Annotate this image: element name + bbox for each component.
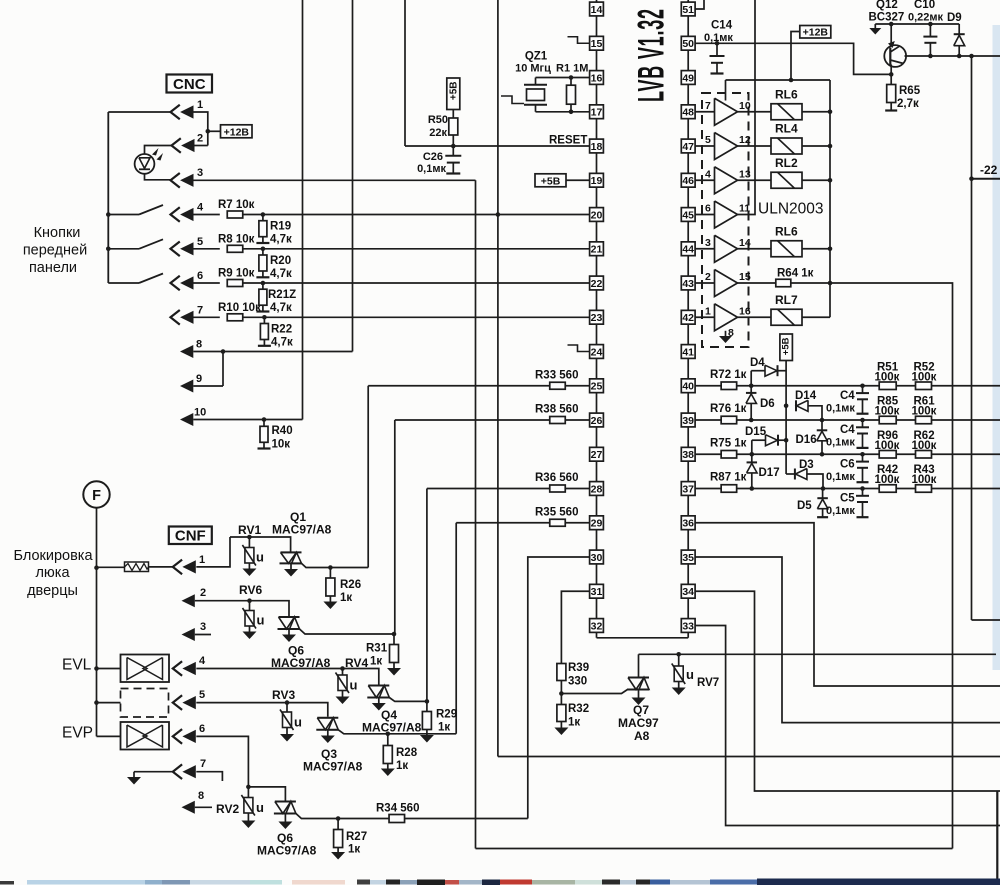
wire: pin36 to right edge	[695, 523, 1000, 686]
wire: Q1 gate	[302, 563, 369, 567]
svg-text:1к: 1к	[370, 656, 382, 668]
svg-text:42: 42	[682, 312, 694, 324]
svg-text:+5В: +5В	[541, 175, 561, 187]
node: bus / switch pin5	[106, 247, 111, 252]
svg-text:1к: 1к	[340, 592, 352, 604]
ground R28	[381, 769, 395, 777]
svg-text:7: 7	[705, 100, 711, 112]
svg-text:22: 22	[591, 278, 603, 290]
svg-text:CNC: CNC	[173, 76, 206, 93]
resistor R22 4.7k with ground bar	[263, 317, 265, 324]
wire: CNF3 stub	[195, 634, 211, 636]
svg-text:R7 10к: R7 10к	[218, 199, 255, 211]
wire: CNF6 down to bottom triac	[196, 736, 285, 800]
node: R22 top	[262, 315, 267, 320]
svg-text:R76 1к: R76 1к	[710, 403, 747, 415]
ground RV2	[241, 821, 255, 829]
capacitor C6	[860, 452, 865, 457]
bottom color strip (scan artifact)	[0, 881, 14, 885]
diode D17	[751, 454, 753, 462]
svg-text:BC327: BC327	[869, 12, 905, 24]
diode D6	[750, 386, 752, 393]
power +5B box at pin 19	[535, 174, 566, 187]
pin 15 hook stub	[568, 37, 590, 44]
svg-text:100к: 100к	[875, 474, 900, 486]
resistor R38 560	[395, 419, 550, 421]
svg-text:R72 1к: R72 1к	[710, 369, 747, 381]
switch S3 front panel button	[108, 282, 139, 284]
wire: CNF8 stub	[195, 806, 212, 808]
resistor R1 1M	[569, 75, 574, 80]
svg-text:R29: R29	[436, 709, 457, 721]
capacitor C26 0.1uF	[452, 146, 454, 156]
svg-text:5: 5	[199, 689, 205, 701]
switch S1 front panel button	[108, 214, 139, 216]
svg-text:34: 34	[682, 586, 694, 598]
svg-text:19: 19	[591, 175, 603, 187]
svg-text:0,1мк: 0,1мк	[826, 471, 855, 483]
svg-text:C5: C5	[840, 493, 855, 505]
svg-text:C4: C4	[840, 390, 855, 402]
svg-text:25: 25	[591, 381, 603, 393]
wire: -220V to right edge bottom	[972, 619, 1000, 621]
svg-text:R34 560: R34 560	[376, 803, 419, 815]
node: row39 D6 bottom	[749, 418, 754, 423]
svg-text:2: 2	[197, 133, 203, 145]
node: RL2 to bus	[828, 178, 833, 183]
svg-text:люка: люка	[35, 565, 70, 581]
solenoid valve EVP	[97, 735, 121, 737]
svg-text:1к: 1к	[568, 717, 580, 729]
connector CNF pin 5	[173, 695, 182, 710]
svg-text:RL6: RL6	[775, 224, 798, 238]
svg-text:RV6: RV6	[239, 583, 262, 597]
resistor R52 100k	[916, 382, 932, 390]
ground R29	[420, 735, 434, 743]
wire: pin3/R64 bottom link	[476, 848, 953, 850]
varistor RV3	[286, 703, 288, 712]
triac Q6 MAC97/A8 (mid)	[279, 616, 300, 618]
crystal QZ1 10MHz	[536, 77, 590, 79]
svg-text:18: 18	[591, 141, 603, 153]
svg-text:40: 40	[682, 381, 694, 393]
svg-text:100к: 100к	[875, 371, 900, 383]
svg-text:D6: D6	[760, 398, 775, 410]
svg-text:C10: C10	[914, 0, 935, 11]
diode D3	[786, 473, 795, 475]
IC left column pin boxes 14-32	[590, 2, 604, 16]
node: D14 anode on +5B stem	[784, 404, 789, 409]
wire: row pin39	[737, 419, 1000, 421]
svg-text:u: u	[294, 715, 302, 730]
svg-text:24: 24	[591, 346, 603, 358]
wire: bottom right border	[996, 791, 998, 884]
svg-text:MAC97/A8: MAC97/A8	[362, 721, 422, 735]
relay RL6	[738, 111, 772, 113]
wire: pin26 line down to Q6 gate	[394, 420, 396, 634]
node: R50/C26/RESET junction	[451, 144, 456, 149]
svg-text:RV7: RV7	[697, 677, 719, 689]
resistor R42 100k	[879, 485, 896, 493]
IC U1 right spine	[687, 0, 689, 638]
resistor R43 100k	[916, 485, 932, 493]
svg-text:u: u	[350, 678, 358, 693]
diode D4	[750, 371, 752, 386]
ground RV7	[672, 688, 686, 696]
resistor R36 560	[427, 488, 550, 490]
varistor RV6	[249, 601, 251, 611]
resistor R39 330	[557, 664, 566, 681]
svg-text:MAC97: MAC97	[618, 716, 659, 730]
ground Q6b MT1	[284, 814, 286, 822]
ground RV1	[242, 569, 256, 577]
wire: LED to pin3	[145, 174, 171, 180]
switch S2 front panel button	[108, 248, 139, 250]
svg-text:R36 560: R36 560	[535, 472, 578, 484]
svg-text:1к: 1к	[438, 722, 450, 734]
node: row37 D17 bottom	[750, 486, 755, 491]
svg-text:12: 12	[739, 134, 751, 146]
transistor Q12 BC327	[884, 45, 906, 67]
resistor R7 10k	[194, 214, 220, 216]
wire: Q3 gate to pin29 line	[338, 730, 456, 734]
resistor R75 1k	[695, 453, 721, 455]
wire: CNF2 row to Q6	[195, 601, 289, 616]
svg-text:28: 28	[591, 483, 603, 495]
svg-text:u: u	[256, 550, 264, 565]
buffer U2 channel in2 out15	[715, 270, 738, 297]
resistor R51 100k	[879, 382, 896, 390]
svg-text:22к: 22к	[429, 127, 447, 139]
wire: row pin40	[737, 385, 1000, 387]
svg-text:D17: D17	[759, 467, 780, 479]
wire: pin3 long row then down to bottom-right fan	[194, 179, 476, 181]
diode D14	[795, 400, 797, 411]
svg-text:14: 14	[739, 237, 751, 249]
svg-text:10к: 10к	[272, 439, 291, 451]
LED D (front panel)	[135, 154, 155, 174]
svg-text:16: 16	[591, 72, 603, 84]
svg-text:0,1мк: 0,1мк	[704, 32, 733, 44]
pin 24 hook stub	[568, 345, 590, 352]
node: R21Z top	[261, 281, 266, 286]
resistor R50 22k	[452, 110, 454, 118]
ground Q6 MT1	[288, 629, 290, 635]
connector CNF pin 7	[173, 764, 182, 779]
resistor R62 100k	[916, 451, 932, 459]
svg-text:дверцы: дверцы	[27, 583, 78, 599]
wire: pin28 line down to Q4 gate	[426, 489, 428, 702]
ground RV6	[243, 632, 257, 640]
svg-text:1: 1	[705, 305, 711, 317]
connector CNC pin 3	[171, 173, 180, 188]
wire: CNF5 row to Q3	[196, 703, 327, 717]
svg-text:51: 51	[682, 4, 694, 16]
svg-text:+12В: +12В	[803, 27, 829, 39]
power +5B box (R50 pullup)	[447, 78, 460, 110]
svg-text:4: 4	[705, 168, 711, 180]
wire: +12B relay rail	[726, 79, 831, 81]
node: row38 D15/D17 tap	[750, 452, 755, 457]
capacitor C4 (row40)	[860, 383, 865, 388]
node: fuse tap	[94, 565, 99, 570]
wire: R64 line right and down the right side	[791, 283, 953, 849]
svg-text:+5В: +5В	[449, 82, 460, 101]
svg-text:0,1мк: 0,1мк	[417, 163, 446, 175]
svg-text:5: 5	[197, 236, 203, 248]
resistor R26 1k	[329, 568, 331, 579]
svg-text:3: 3	[705, 237, 711, 249]
relay RL7	[738, 316, 772, 318]
svg-text:R1 1M: R1 1M	[556, 63, 588, 75]
resistor R19 4.7k with ground bar	[262, 215, 264, 222]
svg-text:D16: D16	[796, 434, 817, 446]
node: R64 to bus	[828, 281, 833, 286]
resistor R65 2.7k	[890, 74, 892, 84]
wire: row pin37	[737, 488, 1000, 490]
node: R27 tap	[336, 816, 341, 821]
relay RL2	[738, 179, 772, 181]
node: row38 D16 bottom	[820, 452, 825, 457]
relay RL6	[738, 248, 772, 250]
svg-text:+12В: +12В	[224, 126, 250, 138]
svg-text:RESET: RESET	[549, 135, 587, 147]
resistor R29 1k	[426, 701, 428, 711]
svg-text:R28: R28	[396, 747, 418, 759]
varistor RV1	[248, 537, 250, 548]
svg-text:u: u	[686, 667, 694, 682]
svg-text:4: 4	[197, 202, 204, 214]
svg-text:CNF: CNF	[175, 528, 206, 545]
resistor R72 1k	[695, 385, 721, 387]
svg-text:RV3: RV3	[272, 688, 295, 702]
connector CNC pin 5	[171, 242, 180, 257]
Q12 base lead	[890, 65, 892, 75]
ground R27	[331, 852, 345, 860]
svg-text:29: 29	[591, 518, 603, 530]
svg-text:41: 41	[682, 346, 694, 358]
svg-text:RV4: RV4	[345, 656, 368, 670]
svg-text:MAC97/A8: MAC97/A8	[257, 844, 317, 858]
svg-text:14: 14	[591, 4, 603, 16]
triac Q1 MAC97/A8	[281, 551, 302, 553]
svg-text:2: 2	[200, 587, 206, 599]
power +12B box top right	[800, 26, 831, 39]
crystal case hook	[501, 96, 524, 104]
node: Q7 gate tap	[559, 691, 564, 696]
svg-text:50: 50	[682, 38, 694, 50]
wire: row pin4 to IC	[243, 214, 590, 216]
wire: pin35 to right edge	[695, 557, 1000, 723]
svg-text:100к: 100к	[912, 474, 937, 486]
wire: pin8 row to top vertical	[193, 351, 352, 353]
svg-text:100к: 100к	[912, 406, 937, 418]
svg-text:D3: D3	[799, 459, 814, 471]
resistor R9 10k	[194, 282, 220, 284]
resistor R8 10k	[194, 248, 220, 250]
svg-text:Q12: Q12	[876, 0, 898, 11]
node: row37 D3	[821, 486, 826, 491]
wire: relay common bus right	[829, 80, 831, 317]
wire: pin1 to +12B node	[194, 112, 208, 146]
resistor R61 100k	[916, 416, 932, 424]
svg-text:C14: C14	[711, 20, 733, 32]
svg-text:3: 3	[200, 621, 206, 633]
connector CNC pin 1	[171, 105, 180, 120]
wire: pin 51 stub to top	[695, 0, 704, 9]
svg-text:4,7к: 4,7к	[271, 337, 293, 349]
svg-text:100к: 100к	[912, 371, 937, 383]
svg-text:2,7к: 2,7к	[897, 98, 919, 110]
wire: pin10 row to top vertical	[193, 419, 302, 421]
resistor R21Z 4.7k with ground bar	[262, 283, 264, 290]
buffer U2 channel in3 out14	[715, 235, 738, 262]
Q12 emitter lead with arrow	[890, 24, 892, 47]
svg-text:R65: R65	[899, 85, 921, 97]
svg-text:4,7к: 4,7к	[270, 234, 292, 246]
wire: row pin5 to IC	[243, 248, 590, 250]
node: EVL tap	[94, 666, 99, 671]
svg-text:10: 10	[739, 100, 751, 112]
resistor R64 1k	[738, 282, 776, 284]
buffer U2 channel in5 out12	[715, 133, 738, 160]
node: R31 tap	[392, 632, 397, 637]
resistor R76 1k	[695, 419, 721, 421]
wire: row pin6 to IC	[243, 282, 590, 284]
svg-text:7: 7	[200, 758, 206, 770]
node: R19 top	[261, 212, 266, 217]
svg-text:8: 8	[198, 790, 204, 802]
svg-text:R39: R39	[568, 662, 589, 674]
svg-text:EVL: EVL	[62, 657, 92, 674]
dashed solenoid slot	[121, 689, 169, 718]
svg-text:0,1мк: 0,1мк	[826, 403, 855, 415]
svg-text:0,22мк: 0,22мк	[908, 12, 944, 24]
svg-text:+5В: +5В	[781, 337, 792, 355]
node: base/R65	[889, 72, 894, 77]
svg-text:u: u	[256, 800, 264, 815]
svg-text:C26: C26	[423, 151, 443, 163]
svg-text:100к: 100к	[912, 440, 937, 452]
wire: pin31 to R39	[561, 591, 589, 664]
solenoid valve EVL	[97, 668, 121, 670]
node: RL4 to bus	[828, 144, 833, 149]
node: RL6 to bus	[828, 246, 833, 251]
svg-text:4: 4	[199, 655, 206, 667]
wire: CNF1 up to RV1 line	[196, 537, 230, 567]
varistor RV7	[678, 654, 680, 666]
node: RV2 tap	[246, 785, 251, 790]
svg-text:6: 6	[197, 270, 203, 282]
capacitor C10 0.22uF	[928, 22, 933, 27]
IC U1 bottom connecting bar	[597, 637, 689, 639]
wire: Q6b gate / R34 line	[296, 814, 528, 819]
wire: pin25 line down to Q1 gate	[367, 386, 369, 568]
svg-text:39: 39	[682, 415, 694, 427]
svg-text:35: 35	[682, 552, 694, 564]
svg-text:100к: 100к	[875, 406, 900, 418]
svg-text:9: 9	[196, 373, 202, 385]
resistor R20 4.7k with ground bar	[262, 249, 264, 256]
connector CNF pin 2	[182, 594, 195, 607]
wire: pin9 riser	[222, 352, 224, 387]
buffer U2 channel in4 out13	[715, 167, 738, 194]
wire: gate to Q7	[561, 690, 627, 694]
varistor RV4	[342, 669, 344, 676]
svg-text:R21Z: R21Z	[268, 289, 296, 301]
svg-text:33: 33	[682, 620, 694, 632]
resistor R87 1k	[695, 488, 721, 490]
wire: pin2 to LED	[145, 146, 172, 155]
connector CNF pin 3	[182, 628, 195, 641]
svg-text:1: 1	[197, 99, 203, 111]
svg-text:36: 36	[682, 518, 694, 530]
svg-text:15: 15	[739, 271, 751, 283]
svg-text:C4: C4	[840, 424, 855, 436]
svg-text:46: 46	[682, 175, 694, 187]
svg-text:R64 1к: R64 1к	[777, 268, 814, 280]
capacitor C14 0.1uF	[716, 43, 718, 55]
svg-text:2: 2	[705, 271, 711, 283]
node: RV6 tap	[247, 598, 252, 603]
svg-text:17: 17	[591, 107, 603, 119]
svg-text:20: 20	[591, 209, 603, 221]
svg-text:15: 15	[591, 38, 603, 50]
svg-text:5: 5	[705, 134, 711, 146]
svg-text:D4: D4	[750, 357, 765, 369]
wire: -220V vertical down right side	[971, 56, 973, 620]
svg-text:Кнопки: Кнопки	[34, 225, 81, 241]
svg-text:ULN2003: ULN2003	[758, 201, 824, 218]
wire: Q4 gate to pin28 line	[389, 698, 427, 702]
svg-text:4,7к: 4,7к	[270, 268, 292, 280]
svg-text:26: 26	[591, 415, 603, 427]
diode D16	[821, 420, 823, 430]
node: RV3 tap	[285, 700, 290, 705]
svg-text:F: F	[92, 488, 101, 504]
ground Q3 MT1	[327, 730, 329, 736]
svg-text:49: 49	[682, 72, 694, 84]
wire: pin34 to right edge	[695, 591, 1000, 791]
wire: left bus from pin1 to switches	[107, 112, 109, 283]
node F circle	[83, 481, 109, 507]
IC U2 ULN2003 dashed outline	[702, 93, 749, 347]
connector CNF pin 8	[182, 801, 195, 814]
svg-text:R27: R27	[346, 831, 367, 843]
buffer U2 channel in6 out11	[715, 201, 738, 228]
resistor R34 560	[389, 815, 405, 823]
svg-text:MAC97/A8: MAC97/A8	[272, 523, 332, 537]
resistor R31 1k	[393, 634, 395, 645]
wire: pin4-node line to right edge	[498, 756, 1000, 758]
ground Q7 MT1	[638, 690, 640, 698]
svg-text:R35 560: R35 560	[535, 506, 578, 518]
triac Q4 MAC97/A8	[368, 685, 389, 687]
svg-text:RV2: RV2	[216, 802, 239, 816]
emitter rail	[875, 23, 959, 25]
svg-text:R20: R20	[270, 255, 291, 267]
svg-text:C6: C6	[840, 459, 855, 471]
node: bus / switch pin4	[106, 212, 111, 217]
node: RL6 to bus	[828, 109, 833, 114]
resistor R85 100k	[879, 416, 896, 424]
svg-text:EVP: EVP	[62, 725, 93, 742]
wire: vertical from top edge through pin4 row node down to bottom fan	[497, 0, 499, 757]
ULN pin 8 ground	[725, 331, 727, 336]
wire: Q7 MT2 line to right edge	[639, 653, 997, 655]
svg-text:-22: -22	[980, 163, 998, 177]
svg-text:R87 1к: R87 1к	[710, 472, 747, 484]
